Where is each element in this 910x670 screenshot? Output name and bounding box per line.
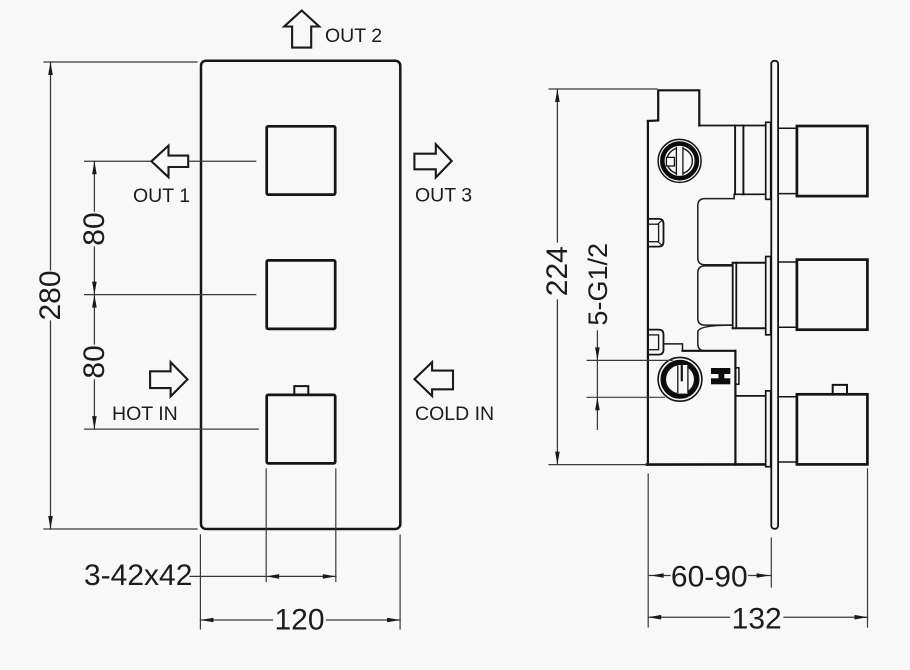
hot marking H (rotated) — [711, 368, 730, 384]
svg-text:60-90: 60-90 — [671, 560, 748, 593]
top shelf edge — [699, 125, 765, 127]
dimension 80 (upper) — [93, 161, 95, 211]
svg-text:OUT 1: OUT 1 — [133, 185, 190, 207]
svg-text:OUT 3: OUT 3 — [415, 185, 472, 207]
lower block top edge — [683, 350, 736, 352]
valve front plate body — [201, 61, 400, 529]
dimension 120 extension lines — [199, 535, 201, 629]
valve port circle 1 (thermostat screw) — [658, 139, 701, 182]
square port 3 (bottom) — [267, 395, 336, 464]
flow arrow OUT 1 (left) — [151, 146, 188, 178]
body bottom edge — [647, 463, 765, 466]
svg-text:OUT 2: OUT 2 — [325, 25, 382, 47]
svg-text:132: 132 — [732, 603, 782, 636]
leader line port3 centerline — [85, 428, 259, 430]
flow arrow COLD IN (left) — [415, 362, 454, 396]
port 3 top edge — [735, 395, 765, 397]
dimension 224 extension lines — [549, 88, 657, 90]
svg-text:HOT IN: HOT IN — [112, 403, 178, 425]
tab on knob 3 — [833, 385, 847, 394]
tab on square port 3 — [294, 386, 308, 395]
dimension 60-90 extension lines — [647, 474, 649, 627]
dimension 224 — [556, 89, 558, 242]
dimension 280 — [50, 62, 52, 270]
leader line upper — [587, 359, 672, 361]
dimension 132 extension line right — [867, 469, 869, 627]
svg-text:80: 80 — [78, 345, 111, 378]
valve body left edge — [647, 121, 649, 465]
G1/2 stub plug 2 — [648, 330, 664, 355]
svg-text:120: 120 — [274, 604, 324, 637]
square port 2 (middle) — [267, 260, 336, 329]
knob 1 — [797, 126, 868, 196]
lower block right edge — [734, 351, 736, 465]
knob 3 neck — [779, 396, 797, 398]
small clip right of H — [736, 368, 739, 385]
dimension 120 — [200, 619, 272, 621]
valve port circle 2 (volume control screw) — [658, 357, 702, 401]
knob 1 neck — [779, 127, 797, 129]
svg-text:80: 80 — [78, 212, 111, 245]
port 1 bottom edge — [735, 193, 765, 195]
dimension 3-42x42 extension lines — [265, 469, 267, 582]
svg-text:280: 280 — [34, 270, 67, 320]
collar row 2 — [766, 257, 771, 335]
svg-text:3-42x42: 3-42x42 — [84, 559, 192, 592]
recess notch 1 (between ports 1-2) — [698, 199, 734, 265]
knob 2 neck — [779, 261, 797, 263]
svg-text:5-G1/2: 5-G1/2 — [583, 243, 613, 326]
stub step to lower block — [663, 344, 682, 351]
dimension 80 (lower) — [93, 295, 95, 344]
square port 1 (top) — [267, 126, 336, 194]
leader line OUT 1 / port1 centerline — [85, 160, 256, 162]
svg-text:COLD IN: COLD IN — [415, 403, 494, 425]
top mounting tab — [648, 90, 699, 125]
G1/2 stub plug 1 — [648, 219, 664, 247]
leader line port2 centerline — [85, 294, 256, 296]
recess notch 3 (above lower block) — [698, 325, 733, 351]
step below port 1 — [733, 194, 735, 198]
knob 3 — [797, 394, 868, 464]
flow arrow HOT IN (right) — [150, 362, 187, 396]
dimension 3-42x42 — [190, 575, 336, 577]
recess notch 2 (between ports 2-3) — [698, 266, 733, 325]
knob 2 — [797, 260, 868, 330]
wall plate — [771, 61, 778, 529]
small port offset dimension — [596, 331, 598, 429]
dimension 60-90 — [648, 575, 670, 577]
port 1 block verticals — [734, 126, 736, 195]
flow arrow OUT 2 (up) — [284, 11, 319, 48]
collar row 1 — [766, 122, 771, 199]
port 2 block — [733, 262, 766, 264]
flow arrow OUT 3 (right) — [414, 144, 451, 177]
dimension 280 extension lines — [44, 61, 197, 63]
dimension 132 — [648, 616, 729, 618]
svg-text:224: 224 — [541, 246, 574, 296]
collar row 3 — [766, 391, 771, 467]
leader line lower — [587, 396, 664, 398]
